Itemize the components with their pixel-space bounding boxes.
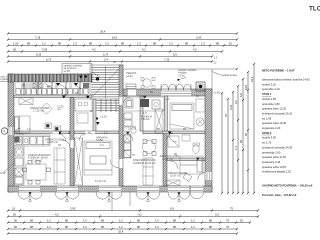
external staircase bbox=[90, 65, 123, 99]
terrace table bbox=[141, 78, 155, 89]
fridge boxes ap2 bbox=[124, 113, 152, 126]
bed top right bbox=[170, 103, 194, 129]
svg-text:4,2: 4,2 bbox=[142, 48, 146, 52]
svg-text:spremište 2,10: spremište 2,10 bbox=[262, 87, 280, 91]
svg-text:hodnik 3,25: hodnik 3,25 bbox=[262, 82, 276, 86]
kitchen counter left bbox=[14, 131, 50, 146]
svg-text:10,4: 10,4 bbox=[250, 76, 254, 82]
interior walls bbox=[14, 65, 205, 186]
svg-text:2,61: 2,61 bbox=[229, 104, 233, 110]
svg-text:88: 88 bbox=[173, 219, 176, 223]
svg-text:52: 52 bbox=[229, 42, 232, 46]
svg-text:88: 88 bbox=[101, 219, 104, 223]
svg-text:1,2: 1,2 bbox=[47, 225, 51, 229]
svg-text:88: 88 bbox=[173, 225, 176, 229]
svg-text:1,2: 1,2 bbox=[119, 225, 123, 229]
svg-text:6,9: 6,9 bbox=[170, 207, 174, 211]
svg-text:75: 75 bbox=[226, 219, 229, 223]
landing tiles bbox=[96, 99, 119, 120]
kitchen strip ap2 bbox=[124, 134, 132, 158]
svg-text:hodnik 4,35: hodnik 4,35 bbox=[262, 97, 276, 101]
svg-text:52: 52 bbox=[240, 219, 243, 223]
sofa ap2 bbox=[143, 158, 153, 185]
wardrobe center bbox=[75, 138, 83, 185]
svg-text:spavaća soba 11,30: spavaća soba 11,30 bbox=[262, 155, 286, 159]
svg-text:spavaća soba 10,87: spavaća soba 10,87 bbox=[262, 165, 287, 169]
svg-text:kuhinja-dn.boravak 26,10: kuhinja-dn.boravak 26,10 bbox=[262, 111, 293, 115]
micro dimension labels bbox=[22, 60, 199, 157]
doormat terrace bbox=[126, 84, 136, 89]
bed bottom right bbox=[180, 156, 203, 174]
svg-text:STAN 2: STAN 2 bbox=[262, 131, 272, 135]
svg-text:50: 50 bbox=[13, 48, 16, 52]
label living left bbox=[28, 153, 51, 162]
svg-text:spavaća soba 12,25: spavaća soba 12,25 bbox=[262, 107, 287, 111]
svg-text:1,0: 1,0 bbox=[83, 219, 87, 223]
svg-text:1,6: 1,6 bbox=[27, 127, 31, 131]
svg-text:88: 88 bbox=[27, 42, 30, 46]
svg-text:SOBA: SOBA bbox=[96, 138, 103, 142]
svg-text:10,87 m2: 10,87 m2 bbox=[170, 174, 181, 178]
svg-text:1,2: 1,2 bbox=[191, 219, 195, 223]
svg-text:88: 88 bbox=[65, 219, 68, 223]
svg-text:4,2: 4,2 bbox=[55, 213, 59, 217]
svg-text:88: 88 bbox=[89, 42, 92, 46]
svg-text:7,18: 7,18 bbox=[35, 36, 41, 40]
svg-text:20,4: 20,4 bbox=[118, 230, 124, 234]
svg-text:8,61: 8,61 bbox=[112, 36, 118, 40]
svg-text:kuhinja-dn.boravak 24,35: kuhinja-dn.boravak 24,35 bbox=[262, 145, 293, 149]
svg-text:88: 88 bbox=[209, 225, 212, 229]
svg-text:1,0: 1,0 bbox=[155, 225, 159, 229]
svg-text:88: 88 bbox=[185, 42, 188, 46]
svg-text:+1,30: +1,30 bbox=[100, 115, 107, 119]
svg-text:1,0: 1,0 bbox=[155, 219, 159, 223]
svg-text:2,04: 2,04 bbox=[196, 36, 202, 40]
bed center bbox=[84, 141, 112, 175]
terrace label bbox=[126, 56, 218, 79]
terrace boundary bbox=[123, 68, 238, 89]
svg-text:5,9: 5,9 bbox=[173, 53, 177, 57]
svg-text:1,2: 1,2 bbox=[169, 42, 173, 46]
svg-text:27,10 m2: 27,10 m2 bbox=[31, 158, 42, 162]
wardrobe right wing bbox=[155, 109, 163, 133]
svg-text:2,4: 2,4 bbox=[100, 143, 104, 147]
appliance strip left wall bbox=[14, 146, 24, 185]
kitchen counter ap2 bbox=[123, 97, 164, 111]
svg-text:wc 1,75: wc 1,75 bbox=[262, 141, 272, 145]
interior door swings bbox=[14, 97, 205, 180]
svg-text:6,72: 6,72 bbox=[46, 58, 52, 62]
svg-text:88: 88 bbox=[30, 219, 33, 223]
svg-text:75: 75 bbox=[230, 207, 233, 211]
svg-text:TLOCRT 1. KATA: TLOCRT 1. KATA bbox=[309, 6, 320, 13]
svg-text:P bruto/1. kata – 172,62 m2: P bruto/1. kata – 172,62 m2 bbox=[262, 193, 297, 197]
svg-text:50: 50 bbox=[13, 213, 16, 217]
axis bubble left bbox=[1, 128, 8, 134]
svg-text:88: 88 bbox=[30, 225, 33, 229]
shaft and boiler bbox=[196, 99, 205, 126]
svg-text:1,0: 1,0 bbox=[73, 42, 77, 46]
svg-text:88: 88 bbox=[121, 42, 124, 46]
svg-text:1,2: 1,2 bbox=[104, 131, 108, 135]
exterior walls bbox=[8, 74, 212, 192]
dining table left bbox=[23, 161, 51, 185]
svg-text:75: 75 bbox=[226, 225, 229, 229]
svg-text:A: A bbox=[3, 129, 5, 133]
svg-text:88: 88 bbox=[137, 219, 140, 223]
label ap2 living bbox=[133, 158, 156, 165]
svg-text:88: 88 bbox=[101, 225, 104, 229]
svg-text:3,3: 3,3 bbox=[215, 213, 219, 217]
svg-text:50: 50 bbox=[14, 219, 17, 223]
svg-text:1,0: 1,0 bbox=[201, 42, 205, 46]
svg-text:1,2: 1,2 bbox=[105, 42, 109, 46]
bathroom fixtures right bbox=[168, 135, 199, 154]
wall openings bbox=[8, 89, 211, 191]
svg-text:predsoblje 2,60: predsoblje 2,60 bbox=[262, 150, 281, 154]
svg-text:15: 15 bbox=[12, 207, 15, 211]
svg-text:52: 52 bbox=[244, 133, 248, 136]
svg-text:spremište 1,80: spremište 1,80 bbox=[262, 102, 280, 106]
sofa left bbox=[54, 148, 65, 184]
svg-text:88: 88 bbox=[153, 42, 156, 46]
svg-text:88: 88 bbox=[58, 42, 61, 46]
left leader bbox=[0, 163, 14, 175]
svg-text:ventilaciona fasada 1,20: ventilaciona fasada 1,20 bbox=[262, 170, 291, 174]
legend room schedule bbox=[262, 68, 313, 198]
svg-text:94: 94 bbox=[239, 140, 243, 143]
svg-text:2,4: 2,4 bbox=[104, 58, 108, 62]
svg-text:2,1: 2,1 bbox=[166, 97, 170, 101]
label bedroom left mid bbox=[45, 137, 65, 145]
svg-text:3,95: 3,95 bbox=[70, 207, 76, 211]
svg-text:4,2: 4,2 bbox=[234, 100, 238, 104]
label bedroom 1 bbox=[30, 105, 64, 113]
svg-text:spavaća soba 10,40: spavaća soba 10,40 bbox=[262, 121, 287, 125]
svg-text:m2: m2 bbox=[57, 107, 61, 111]
bed bedroom 1 bbox=[14, 116, 30, 133]
svg-text:+2,60: +2,60 bbox=[126, 74, 133, 78]
kitchen block center bbox=[75, 99, 92, 111]
svg-text:1,2: 1,2 bbox=[42, 42, 46, 46]
left entrance label bbox=[0, 75, 9, 82]
svg-text:1,9: 1,9 bbox=[143, 111, 147, 115]
svg-text:4,2: 4,2 bbox=[138, 213, 142, 217]
table center bbox=[77, 113, 88, 123]
svg-text:1,4: 1,4 bbox=[234, 146, 238, 150]
top dimension block bbox=[7, 30, 238, 63]
bottom dimension block bbox=[7, 207, 259, 235]
wardrobe bedroom 1 bbox=[19, 98, 33, 105]
svg-text:88: 88 bbox=[137, 225, 140, 229]
svg-text:kuhinja: kuhinja bbox=[16, 131, 25, 135]
svg-text:1,2: 1,2 bbox=[119, 219, 123, 223]
svg-text:1,2: 1,2 bbox=[47, 219, 51, 223]
svg-text:5,70: 5,70 bbox=[103, 53, 109, 57]
stair label box bbox=[62, 64, 100, 78]
svg-text:1,2: 1,2 bbox=[191, 225, 195, 229]
svg-text:+2,60: +2,60 bbox=[64, 69, 71, 73]
leader lines south bbox=[112, 192, 130, 211]
south facade door arcs bbox=[18, 192, 204, 202]
svg-text:12,25 m2: 12,25 m2 bbox=[47, 140, 58, 144]
svg-text:1,0: 1,0 bbox=[137, 42, 141, 46]
terrace callout bbox=[177, 68, 197, 81]
svg-text:5,05: 5,05 bbox=[36, 53, 42, 57]
svg-text:kupaonica 4,45: kupaonica 4,45 bbox=[262, 160, 281, 164]
low wardrobe bottom right bbox=[166, 180, 180, 186]
svg-text:14,10 m2: 14,10 m2 bbox=[95, 179, 106, 183]
svg-text:STAN 1: STAN 1 bbox=[262, 92, 272, 96]
svg-text:KUHINJA 24,35 m2: KUHINJA 24,35 m2 bbox=[133, 161, 156, 165]
svg-text:hodnik 3,90: hodnik 3,90 bbox=[262, 136, 276, 140]
svg-text:20,4: 20,4 bbox=[100, 30, 106, 34]
door markers bbox=[58, 76, 200, 161]
svg-text:3,95: 3,95 bbox=[42, 48, 48, 52]
svg-text:zgradu: zgradu bbox=[0, 77, 8, 81]
tilted chair bottom right bbox=[183, 173, 192, 181]
svg-text:7,35: 7,35 bbox=[164, 58, 170, 62]
french doors terrace bbox=[161, 84, 191, 90]
right dimension block bbox=[221, 63, 255, 194]
svg-text:1,2: 1,2 bbox=[47, 84, 51, 88]
svg-text:I BLAG.: I BLAG. bbox=[141, 117, 150, 121]
svg-text:88: 88 bbox=[209, 219, 212, 223]
svg-text:1,0: 1,0 bbox=[83, 225, 87, 229]
svg-text:vjetrobran/ulazna terasa i stu: vjetrobran/ulazna terasa i stubište 14,6… bbox=[262, 78, 310, 82]
svg-text:ograda terase: ograda terase bbox=[221, 73, 238, 77]
label center bedroom bbox=[95, 135, 108, 184]
svg-text:88: 88 bbox=[216, 42, 219, 46]
svg-text:17,25 m2: 17,25 m2 bbox=[33, 109, 44, 113]
label bedroom bottom right bbox=[160, 153, 188, 177]
wc fixtures center bbox=[124, 127, 136, 134]
svg-text:1,50: 1,50 bbox=[13, 42, 19, 46]
svg-text:+2,60: +2,60 bbox=[214, 91, 221, 95]
diamond table bedroom 1 bbox=[41, 103, 52, 114]
svg-text:88: 88 bbox=[65, 225, 68, 229]
svg-text:kupaonica 4,20: kupaonica 4,20 bbox=[262, 126, 281, 130]
chairs bedroom 1 bbox=[45, 123, 61, 132]
svg-text:0,90: 0,90 bbox=[0, 171, 6, 175]
svg-text:5,9: 5,9 bbox=[239, 93, 243, 97]
svg-text:50: 50 bbox=[14, 225, 17, 229]
svg-text:4,2: 4,2 bbox=[92, 48, 96, 52]
storage rooms bbox=[14, 82, 90, 95]
svg-text:+2,60: +2,60 bbox=[178, 73, 185, 77]
svg-text:75: 75 bbox=[224, 114, 228, 117]
svg-text:8,61: 8,61 bbox=[244, 84, 248, 90]
terrace column bbox=[196, 82, 205, 91]
svg-text:wc 1,85: wc 1,85 bbox=[262, 116, 272, 120]
svg-text:1,4: 1,4 bbox=[214, 56, 218, 60]
svg-text:4,2: 4,2 bbox=[193, 48, 197, 52]
svg-text:10,87 m2: 10,87 m2 bbox=[162, 157, 173, 161]
terrace railing label bbox=[212, 72, 238, 95]
round table ap2 bbox=[143, 140, 157, 156]
